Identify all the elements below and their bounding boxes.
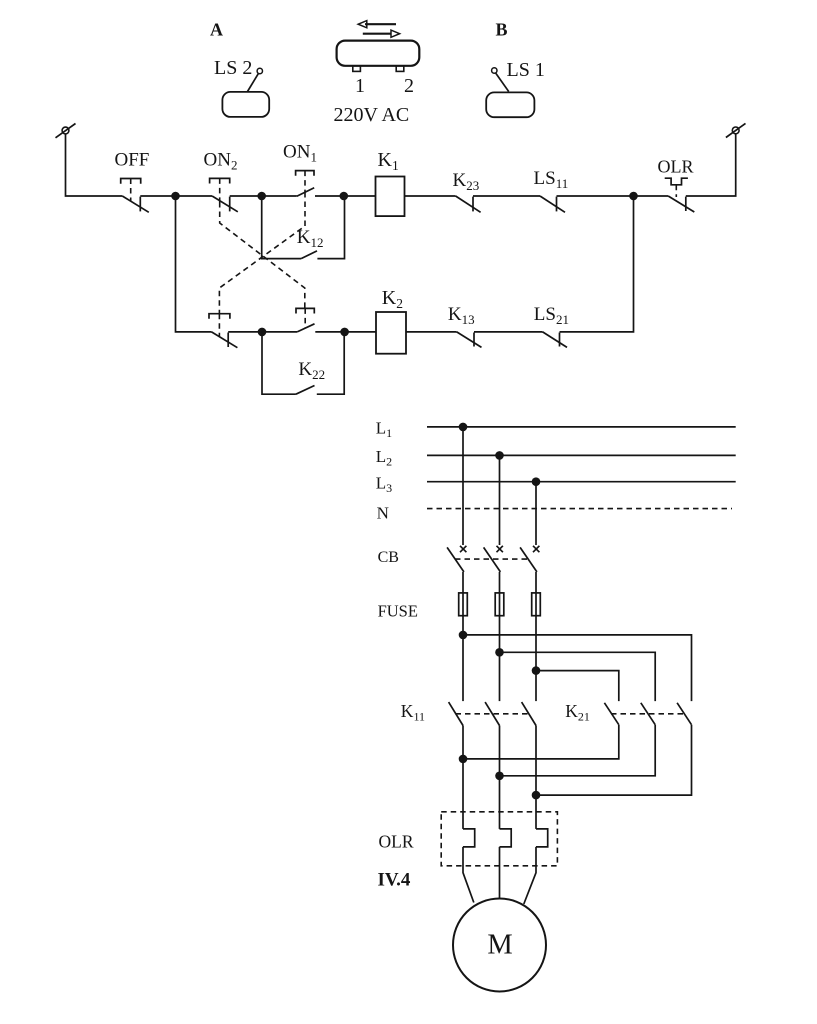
wire K21 pole 2 return xyxy=(500,725,656,776)
circuit breaker linkage (dashed) xyxy=(455,558,529,560)
wire drop to rung 2 xyxy=(176,196,212,332)
wire phase 1 fuse to K11 xyxy=(462,593,464,701)
terminal left xyxy=(56,124,76,138)
svg-text:A: A xyxy=(210,20,223,40)
contactor K21 linkage (dashed) xyxy=(611,713,686,715)
svg-text:N: N xyxy=(377,504,389,523)
contact K22 branch (NO) xyxy=(262,332,344,394)
contactor K11 pole 3 blade xyxy=(522,702,536,725)
OLR heater 1 xyxy=(463,829,475,847)
pushbutton ON1 (NO contact) xyxy=(296,171,315,197)
contactor K21 pole 3 blade xyxy=(677,703,691,725)
node 6 xyxy=(340,328,349,337)
wire motor lead 2 xyxy=(499,847,501,899)
node return 1 xyxy=(459,755,468,764)
wire phase 2 drop to CB xyxy=(499,455,501,545)
svg-text:2: 2 xyxy=(404,75,414,97)
node 2 xyxy=(257,192,266,201)
wire phase 2 fuse to K11 xyxy=(499,593,501,701)
svg-text:ON2: ON2 xyxy=(204,149,238,172)
wire OLR to right rail xyxy=(686,134,736,196)
contact K23 (NC) xyxy=(456,196,481,212)
wire phase 3 drop to CB xyxy=(535,482,537,545)
svg-text:B: B xyxy=(496,20,508,40)
node L3 tap xyxy=(532,477,541,486)
trolley body xyxy=(337,41,420,66)
svg-text:ON1: ON1 xyxy=(283,142,317,165)
wire cross tap 2 to K21 pole 2 xyxy=(500,652,656,701)
wire K21 pole 3 return xyxy=(536,725,692,795)
wire phase 1 K11 to OLR xyxy=(462,726,464,829)
node 1 xyxy=(171,192,180,201)
mechanical link ON2 to ON2b (dashed) xyxy=(220,202,305,308)
trolley foot 2 xyxy=(396,66,404,72)
wire OFF to ON2 xyxy=(140,195,212,197)
fuse F2 xyxy=(495,593,504,616)
node return 2 xyxy=(495,772,504,781)
svg-text:K12: K12 xyxy=(297,227,324,250)
wire motor lead 1 xyxy=(463,847,474,903)
wire LS21 to node 4 xyxy=(560,196,634,332)
circuit breaker CB pole 1 xyxy=(447,546,466,593)
svg-text:L1: L1 xyxy=(376,419,392,441)
svg-text:220V AC: 220V AC xyxy=(334,104,410,126)
svg-text:K21: K21 xyxy=(565,701,590,724)
svg-text:K23: K23 xyxy=(453,170,480,193)
svg-text:LS21: LS21 xyxy=(534,304,569,327)
OLR heater 2 xyxy=(500,829,512,847)
wire K2 to K13 xyxy=(406,331,457,333)
node 3 xyxy=(340,192,349,201)
wire phase 2 K11 to OLR xyxy=(499,726,501,829)
wire left rail xyxy=(66,134,123,196)
svg-text:L2: L2 xyxy=(376,447,392,469)
contact K13 (NC) xyxy=(457,332,482,348)
contactor K21 pole 1 blade xyxy=(604,703,618,725)
circuit breaker CB pole 2 xyxy=(484,546,503,593)
wire K21 pole 1 return xyxy=(463,725,619,759)
wire ON2b to K2 xyxy=(315,331,376,333)
line L3 xyxy=(427,481,736,483)
svg-text:K2: K2 xyxy=(382,287,403,311)
wire ON1 to K1 xyxy=(315,195,376,197)
contactor K11 pole 2 blade xyxy=(485,702,499,725)
svg-text:OLR: OLR xyxy=(658,156,694,176)
wire ON2 to ON1 xyxy=(230,195,297,197)
svg-text:LS 1: LS 1 xyxy=(507,59,545,81)
svg-text:LS 2: LS 2 xyxy=(214,57,252,79)
svg-text:K22: K22 xyxy=(298,359,325,382)
wire cross tap 3 to K21 pole 1 xyxy=(536,671,619,702)
line N (dashed) xyxy=(427,508,732,510)
arrow left (upper travel direction) xyxy=(358,21,396,28)
limit switch LS1 xyxy=(486,68,534,117)
svg-text:L3: L3 xyxy=(376,474,392,496)
wire K1 to K23 xyxy=(405,195,456,197)
limit switch LS2 xyxy=(222,68,269,117)
node L1 tap xyxy=(459,423,468,432)
node fuse tap 1 xyxy=(459,631,468,640)
wire K23 to LS11 xyxy=(473,195,540,197)
wire phase 1 drop to CB xyxy=(462,427,464,545)
contact K12 branch (NO) xyxy=(262,196,345,259)
arrow right (lower travel direction) xyxy=(363,30,400,37)
pushbutton ON2 (NC contact) xyxy=(210,178,238,211)
svg-text:CB: CB xyxy=(378,549,399,566)
contactor K21 pole 2 blade xyxy=(641,703,655,725)
coil K2 xyxy=(376,312,406,354)
contact ON2b (NO, linked to ON2) xyxy=(296,308,315,332)
svg-text:K1: K1 xyxy=(378,149,399,173)
fuse F3 xyxy=(532,593,541,616)
svg-text:FUSE: FUSE xyxy=(378,602,418,621)
node 4 xyxy=(629,192,638,201)
node return 3 xyxy=(532,791,541,800)
overload contact OLR xyxy=(665,178,695,212)
svg-text:OFF: OFF xyxy=(115,149,150,170)
trolley foot 1 xyxy=(353,66,361,72)
svg-text:IV.4: IV.4 xyxy=(378,870,411,891)
mechanical link ON1 to ON1b (dashed) xyxy=(219,192,305,314)
svg-text:LS11: LS11 xyxy=(534,168,569,191)
wire motor lead 3 xyxy=(524,847,536,904)
contact LS21 (NC) xyxy=(543,332,567,348)
svg-text:K13: K13 xyxy=(448,304,475,327)
OLR heater 3 xyxy=(536,829,548,847)
terminal right xyxy=(726,123,746,137)
contactor K11 pole 1 blade xyxy=(449,702,463,725)
wire phase 3 fuse to K11 xyxy=(535,593,537,701)
svg-text:1: 1 xyxy=(355,75,365,97)
overload relay box (dashed) xyxy=(441,812,557,866)
coil K1 xyxy=(376,177,405,217)
svg-text:OLR: OLR xyxy=(379,831,414,851)
wire LS11 to OLR xyxy=(557,195,669,197)
line L2 xyxy=(427,454,736,456)
node 5 xyxy=(258,328,267,337)
line L1 xyxy=(427,426,736,428)
contactor K11 linkage (dashed) xyxy=(456,713,532,715)
contact LS11 (NC) xyxy=(540,196,565,212)
wire cross tap 1 to K21 pole 3 xyxy=(463,635,692,701)
svg-text:M: M xyxy=(487,930,512,961)
contact ON1b (NC, linked to ON1) xyxy=(209,314,237,348)
motor M xyxy=(453,899,546,992)
wire ON1b to ON2b xyxy=(228,331,297,333)
circuit breaker CB pole 3 xyxy=(520,546,539,593)
svg-text:K11: K11 xyxy=(401,701,425,724)
node L2 tap xyxy=(495,451,504,460)
wire phase 3 K11 to OLR xyxy=(535,726,537,829)
fuse F1 xyxy=(459,593,468,616)
node fuse tap 3 xyxy=(532,666,541,675)
wire K13 to LS21 xyxy=(474,331,543,333)
node fuse tap 2 xyxy=(495,648,504,657)
pushbutton OFF xyxy=(121,179,149,213)
